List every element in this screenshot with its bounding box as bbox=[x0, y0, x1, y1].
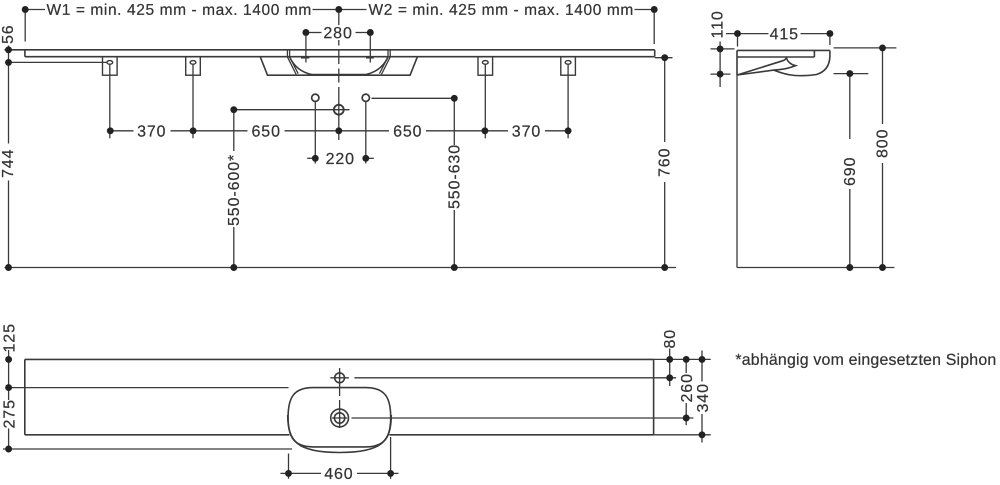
800 dimension column bbox=[834, 48, 897, 268]
svg-text:370: 370 bbox=[137, 123, 166, 140]
line faucet to 550-630 column bbox=[372, 97, 455, 99]
bracket 2 bbox=[186, 57, 201, 139]
faucet hole verticals bbox=[314, 101, 316, 163]
dots side view 800/690 tops bbox=[879, 44, 886, 51]
svg-text:800: 800 bbox=[875, 129, 892, 158]
basin wall diagonals left bbox=[287, 57, 298, 75]
floor reference line front view bbox=[5, 267, 677, 269]
80 dimension column bbox=[669, 349, 671, 387]
basin outer trapezoid front view bbox=[260, 57, 417, 75]
svg-text:W1 = min. 425 mm - max. 1400 m: W1 = min. 425 mm - max. 1400 mm bbox=[46, 2, 311, 19]
W1 dimension row bbox=[25, 10, 654, 45]
svg-text:56: 56 bbox=[0, 24, 17, 44]
faucet hole circles front view bbox=[312, 94, 370, 101]
dots 280 bbox=[302, 29, 309, 36]
svg-text:340: 340 bbox=[695, 383, 712, 412]
plan rect bottom edge extension bbox=[654, 434, 711, 436]
110 dimension bbox=[711, 42, 735, 88]
basin rim verticals right bbox=[388, 50, 390, 57]
svg-text:260: 260 bbox=[679, 373, 696, 402]
340 dimension column bbox=[701, 351, 703, 443]
countertop slab bottom edge bbox=[25, 56, 655, 58]
370-650-650-370 dimension row bbox=[110, 130, 568, 132]
wall line below side profile bbox=[736, 75, 738, 268]
760 dimension column bbox=[655, 58, 673, 268]
220 dimension row bbox=[307, 157, 374, 159]
dots W1/W2 row bbox=[22, 6, 29, 13]
plan faucet line to 80 column bbox=[354, 377, 676, 379]
plan basin rounded rectangle bbox=[288, 388, 391, 447]
svg-text:650: 650 bbox=[251, 123, 280, 140]
floor reference line side view bbox=[737, 267, 895, 269]
drain symbol front view bbox=[234, 103, 350, 116]
centerline front view bbox=[338, 13, 340, 96]
mounting rail line to first bracket bbox=[9, 61, 107, 63]
plan drain line to 260 column bbox=[352, 417, 694, 419]
side profile bowl outline bbox=[737, 50, 830, 75]
dots floor line front bbox=[5, 264, 12, 271]
plan line to basin top edge bbox=[9, 387, 289, 389]
mounting brackets bbox=[103, 57, 576, 139]
dots 460 bbox=[285, 470, 292, 477]
svg-text:650: 650 bbox=[393, 123, 422, 140]
svg-text:W2 = min. 425 mm - max. 1400 m: W2 = min. 425 mm - max. 1400 mm bbox=[368, 2, 633, 19]
SIDE VIEW bbox=[737, 50, 830, 75]
plan drain symbol bbox=[331, 409, 349, 427]
svg-text:275: 275 bbox=[1, 399, 18, 428]
side profile inner wedge upper bbox=[737, 57, 786, 75]
dots columns top bbox=[230, 106, 237, 113]
basin wall diagonals right bbox=[379, 57, 390, 75]
dots 220 bbox=[312, 155, 319, 162]
svg-text:220: 220 bbox=[326, 151, 355, 168]
550-600 dimension column bbox=[233, 110, 235, 268]
side profile top edge bbox=[737, 49, 830, 51]
svg-text:760: 760 bbox=[657, 148, 674, 177]
countertop slab left edge bbox=[24, 50, 26, 57]
dots 56 bbox=[5, 46, 12, 53]
dots plan left column bbox=[5, 356, 12, 363]
dots 370/650 row bbox=[107, 127, 114, 134]
svg-text:280: 280 bbox=[323, 25, 352, 42]
plan left dimension column 125/275 bbox=[8, 350, 10, 449]
svg-text:125: 125 bbox=[1, 323, 18, 352]
countertop slab right edge bbox=[654, 50, 656, 57]
svg-text:550-600*: 550-600* bbox=[226, 154, 243, 226]
svg-text:*abhängig vom eingesetzten Sip: *abhängig vom eingesetzten Siphon bbox=[735, 352, 996, 369]
basin inner bowl arc front view bbox=[290, 57, 388, 75]
280 dimension row bbox=[301, 33, 374, 63]
svg-text:460: 460 bbox=[324, 466, 353, 483]
svg-text:744: 744 bbox=[0, 149, 17, 178]
side profile left/wall edge bbox=[736, 50, 738, 75]
plan line to basin front edge bbox=[3, 448, 292, 450]
415 dimension bbox=[726, 34, 830, 47]
690 dimension column bbox=[834, 74, 869, 268]
460 dimension row bbox=[281, 437, 399, 479]
svg-text:415: 415 bbox=[770, 26, 799, 43]
550-630 dimension column bbox=[453, 98, 455, 267]
dots plan right columns bbox=[666, 356, 673, 363]
dots side view floor bbox=[846, 264, 853, 271]
side profile slab bottom bbox=[737, 56, 814, 58]
dots side view 110 bbox=[717, 45, 724, 52]
side profile inner wedge hook bbox=[774, 57, 796, 70]
PLAN VIEW bbox=[25, 359, 654, 452]
260 dimension column bbox=[685, 359, 687, 425]
plan basin outer lower outline bbox=[288, 415, 392, 453]
svg-text:550-630: 550-630 bbox=[446, 144, 463, 209]
plan countertop rectangle bbox=[25, 359, 654, 434]
svg-text:370: 370 bbox=[512, 123, 541, 140]
svg-text:690: 690 bbox=[842, 157, 859, 186]
basin rim verticals left bbox=[287, 50, 289, 57]
plan centerline bbox=[339, 368, 341, 431]
side profile notch bbox=[813, 50, 815, 57]
svg-text:80: 80 bbox=[662, 329, 679, 349]
countertop slab top edge bbox=[5, 49, 655, 51]
svg-text:110: 110 bbox=[710, 10, 727, 38]
plan faucet hole symbol bbox=[330, 371, 349, 385]
56 / 744 left dimension column bbox=[8, 46, 10, 144]
dots side view 415 bbox=[734, 30, 741, 37]
text background masks bbox=[134, 25, 546, 138]
plan rect top edge extension bbox=[654, 358, 711, 360]
bracket 1 bbox=[103, 57, 118, 139]
bracket 3 bbox=[478, 57, 493, 139]
bracket 4 bbox=[561, 57, 576, 139]
